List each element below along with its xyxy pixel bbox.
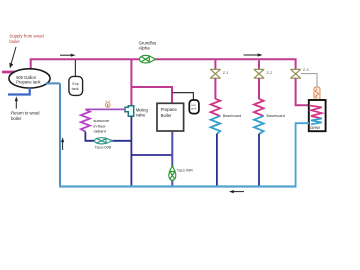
DHW coil (cold half) bbox=[311, 119, 322, 125]
wire: tank riser to main supply bbox=[30, 59, 32, 69]
wire: boiler feed branch bbox=[131, 87, 172, 103]
arrow: flow arrow on main supply (left) bbox=[60, 54, 76, 57]
label: return to wood boiler bbox=[11, 111, 40, 121]
arrow from supply label to tank inlet bbox=[9, 47, 16, 68]
mixing valve body bbox=[125, 106, 134, 117]
svg-text:Baseboard: Baseboard bbox=[223, 114, 241, 118]
wire: supply drop to mixing valve bbox=[130, 60, 132, 106]
wire: Z-2 riser bbox=[258, 60, 260, 69]
wire: drop to expansion tank 1 bbox=[74, 60, 76, 77]
wire: baseboard 1 return drop bbox=[216, 134, 218, 187]
svg-text:Alpha: Alpha bbox=[139, 46, 151, 51]
baseboard 2 zigzag (hot half) bbox=[254, 99, 264, 116]
svg-text:Exp: Exp bbox=[72, 82, 78, 86]
wire: main supply line bbox=[30, 58, 297, 60]
wire: mixing valve bottom drop to bottom return bbox=[130, 116, 132, 186]
DHW coil (hot half) bbox=[309, 105, 322, 118]
arrow: up arrow at return to wood boiler bbox=[15, 96, 18, 108]
label: supply from wood boiler bbox=[9, 33, 44, 43]
svg-text:DHW: DHW bbox=[310, 125, 320, 130]
baseboard 1 zigzag (cold half) bbox=[211, 116, 221, 134]
wire: tank bottom return to wood boiler bbox=[8, 88, 30, 95]
label: Grundfos Alpha bbox=[139, 40, 157, 50]
radiant zigzag coil (sunroom in-floor) bbox=[81, 109, 90, 131]
svg-text:Taco 00R: Taco 00R bbox=[177, 169, 193, 173]
svg-text:Propane: Propane bbox=[161, 107, 178, 112]
svg-text:Z-3: Z-3 bbox=[303, 68, 309, 72]
zone valve Z-3 bbox=[291, 69, 301, 78]
wire: Z-3 riser (main line turn down) bbox=[295, 59, 297, 69]
wire: boiler return drop bbox=[171, 132, 173, 187]
arrow: up flow arrow on left riser bbox=[61, 137, 64, 150]
expansion tank 2 bbox=[189, 100, 199, 114]
svg-text:Boiler: Boiler bbox=[161, 113, 173, 118]
wire: left return riser bbox=[59, 83, 61, 186]
wire: tank outlet to left return riser bbox=[46, 82, 60, 84]
svg-text:Propane tank: Propane tank bbox=[16, 80, 41, 85]
svg-text:Z-1: Z-1 bbox=[223, 71, 229, 75]
pump: Grundfos Alpha on main line bbox=[140, 55, 156, 63]
baseboard 2 zigzag (cold half) bbox=[254, 116, 264, 134]
wire: radiant return to mixing valve drop bbox=[85, 132, 131, 141]
svg-text:Baseboard: Baseboard bbox=[267, 114, 285, 118]
wire: line to expansion tank 2 bbox=[173, 93, 194, 100]
wire: Z-3 to DHW tank bbox=[296, 78, 309, 105]
svg-text:Taco-008: Taco-008 bbox=[95, 145, 112, 150]
wire: bottom return line bbox=[59, 185, 297, 187]
propane boiler box bbox=[157, 103, 184, 131]
wire: supply stub into tank bbox=[2, 71, 20, 74]
baseboard 1 zigzag (hot half) bbox=[211, 99, 221, 116]
wire: aquastat gray wire Z-3 to DHW element bbox=[301, 74, 317, 88]
label: mixing valve bbox=[136, 107, 149, 117]
svg-text:boiler: boiler bbox=[9, 39, 20, 44]
zone valve Z-1 bbox=[210, 69, 220, 78]
pump: Taco 00R on boiler return bbox=[169, 166, 176, 180]
pump: Taco-008 on radiant return bbox=[95, 138, 113, 144]
expansion tank 1 bbox=[69, 76, 83, 95]
DHW electric element bbox=[314, 87, 320, 100]
svg-text:tank: tank bbox=[72, 87, 79, 91]
DHW tank box bbox=[309, 100, 326, 131]
svg-text:tank: tank bbox=[191, 106, 197, 110]
arrow: flow arrow under bottom return bbox=[229, 190, 244, 193]
zone valve Z-2 bbox=[254, 69, 264, 78]
wire: Z-1 to baseboard 1 bbox=[214, 78, 216, 99]
thermostat icon on radiant supply bbox=[105, 101, 110, 108]
wire: baseboard 2 return drop bbox=[258, 134, 260, 187]
svg-text:valve: valve bbox=[136, 112, 146, 117]
svg-text:Z-2: Z-2 bbox=[266, 71, 272, 75]
svg-text:radiant: radiant bbox=[94, 129, 107, 134]
wire: Z-1 riser bbox=[214, 60, 216, 69]
svg-text:boiler: boiler bbox=[11, 116, 22, 121]
arrow: flow arrow on main supply (right) bbox=[244, 53, 263, 56]
wire: Z-2 to baseboard 2 bbox=[258, 78, 260, 99]
wire: DHW return to bottom line bbox=[296, 123, 309, 186]
svg-text:Supply from wood: Supply from wood bbox=[9, 33, 44, 38]
wire: cross connect to boiler return bbox=[131, 154, 172, 156]
wire: radiant loop supply (purple) bbox=[85, 108, 125, 110]
label: sunroom in-floor radiant bbox=[94, 118, 110, 133]
propane tank (500 gallon) bbox=[9, 69, 50, 88]
